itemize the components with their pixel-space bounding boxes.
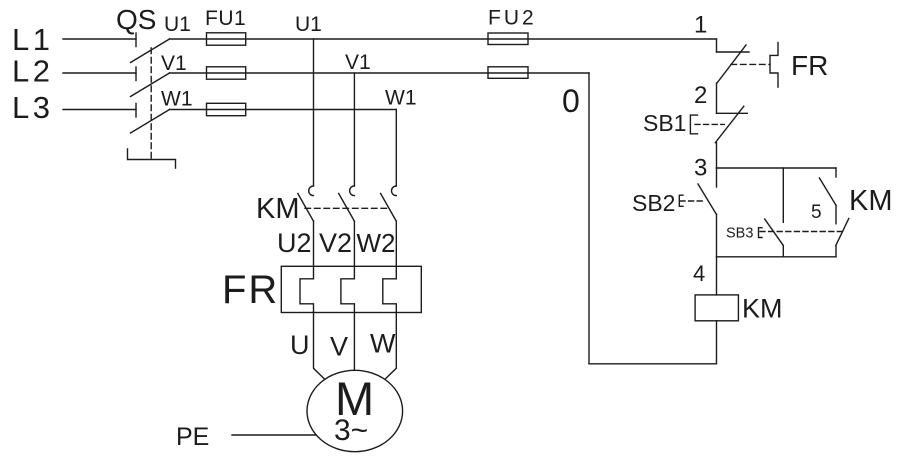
fuse FU2 line 1 bbox=[488, 33, 528, 45]
svg-text:FR: FR bbox=[222, 268, 279, 312]
svg-text:W1: W1 bbox=[385, 87, 417, 110]
wire control drop from line 1 bbox=[716, 39, 718, 52]
svg-text:V1: V1 bbox=[345, 51, 371, 74]
wire phase B row bbox=[170, 72, 590, 74]
contactor KM coil bbox=[695, 295, 738, 321]
svg-text:L1: L1 bbox=[12, 22, 53, 57]
wire motor lead C bbox=[386, 313, 397, 379]
svg-text:0: 0 bbox=[562, 83, 580, 119]
KM main contacts link (dashed) bbox=[305, 207, 388, 209]
svg-text:FU1: FU1 bbox=[205, 7, 246, 30]
svg-text:4: 4 bbox=[693, 261, 705, 286]
wire node 4 rail bbox=[717, 256, 837, 258]
pushbutton SB3 NO contact (middle branch) bbox=[765, 168, 784, 257]
svg-text:W2: W2 bbox=[357, 228, 396, 258]
FR contact actuator link (dashed) bbox=[731, 63, 770, 65]
wire coil to 0 bbox=[589, 321, 717, 364]
svg-text:5: 5 bbox=[811, 202, 822, 223]
SB1 button cap bbox=[690, 115, 697, 134]
wire W1 drop bbox=[395, 110, 397, 186]
svg-text:SB2: SB2 bbox=[632, 190, 675, 216]
thermal relay FR heaters bbox=[281, 266, 421, 312]
svg-text:W1: W1 bbox=[161, 88, 193, 111]
SB2 button cap bbox=[679, 195, 683, 206]
svg-text:V2: V2 bbox=[319, 228, 352, 258]
svg-text:2: 2 bbox=[694, 82, 707, 109]
wire node 3 rail bbox=[717, 167, 837, 169]
fuse FU2 line 0 bbox=[488, 67, 528, 79]
svg-text:U: U bbox=[290, 330, 310, 360]
svg-text:1: 1 bbox=[694, 12, 707, 39]
svg-text:U1: U1 bbox=[164, 13, 191, 36]
svg-text:U2: U2 bbox=[277, 228, 312, 258]
wire 0 drop bbox=[588, 73, 590, 364]
FR thermal element symbol bbox=[770, 43, 778, 87]
svg-text:3: 3 bbox=[694, 155, 707, 182]
wire motor lead A bbox=[314, 313, 325, 379]
FR contact (NC) bbox=[717, 45, 750, 113]
wire coil feed bbox=[716, 257, 718, 295]
SB2 actuator link (dashed) bbox=[680, 200, 705, 202]
svg-text:3~: 3~ bbox=[334, 414, 368, 447]
svg-text:V: V bbox=[330, 332, 348, 362]
wire L1 input bbox=[63, 38, 136, 40]
svg-text:V1: V1 bbox=[161, 52, 187, 75]
SB3 button cap bbox=[759, 228, 763, 238]
pushbutton SB1 (NC stop) bbox=[715, 106, 747, 168]
svg-text:KM: KM bbox=[849, 185, 893, 217]
SB1 actuator link (dashed) bbox=[695, 123, 724, 125]
wire V1 drop bbox=[353, 73, 355, 186]
wire U1 drop bbox=[313, 39, 315, 186]
contactor KM main contact A bbox=[298, 186, 314, 266]
contactor KM main contact C bbox=[381, 186, 397, 266]
svg-text:PE: PE bbox=[176, 423, 209, 451]
svg-text:SB1: SB1 bbox=[643, 110, 686, 136]
svg-text:W: W bbox=[370, 329, 396, 359]
pushbutton SB2 (NO start) bbox=[698, 168, 717, 257]
svg-text:U1: U1 bbox=[295, 13, 322, 36]
contactor KM main contact B bbox=[339, 186, 355, 266]
wire motor lead B bbox=[353, 313, 355, 371]
fuse FU1 phase A bbox=[207, 33, 246, 45]
svg-text:L3: L3 bbox=[12, 90, 53, 125]
svg-text:FR: FR bbox=[791, 50, 828, 81]
svg-text:FU2: FU2 bbox=[488, 7, 537, 30]
svg-text:QS: QS bbox=[116, 4, 156, 35]
fuse FU1 phase B bbox=[207, 67, 246, 79]
pushbutton SB3 NC contact (in series with KM aux) bbox=[836, 218, 849, 256]
wire L3 input bbox=[63, 109, 136, 111]
fuse FU1 phase C bbox=[207, 103, 246, 115]
wire PE bbox=[232, 434, 316, 436]
svg-text:KM: KM bbox=[256, 193, 300, 225]
contactor KM auxiliary contact (NO, self-hold) bbox=[819, 168, 836, 224]
wire L2 input bbox=[63, 72, 136, 74]
switch QS bbox=[128, 33, 176, 168]
svg-text:L2: L2 bbox=[12, 54, 53, 89]
wire phase C row bbox=[170, 109, 397, 111]
motor M bbox=[307, 370, 403, 451]
svg-text:SB3: SB3 bbox=[726, 226, 753, 242]
SB3 actuator link (dashed) bbox=[760, 231, 842, 233]
svg-text:KM: KM bbox=[742, 294, 783, 324]
wire phase A row bbox=[170, 38, 717, 40]
